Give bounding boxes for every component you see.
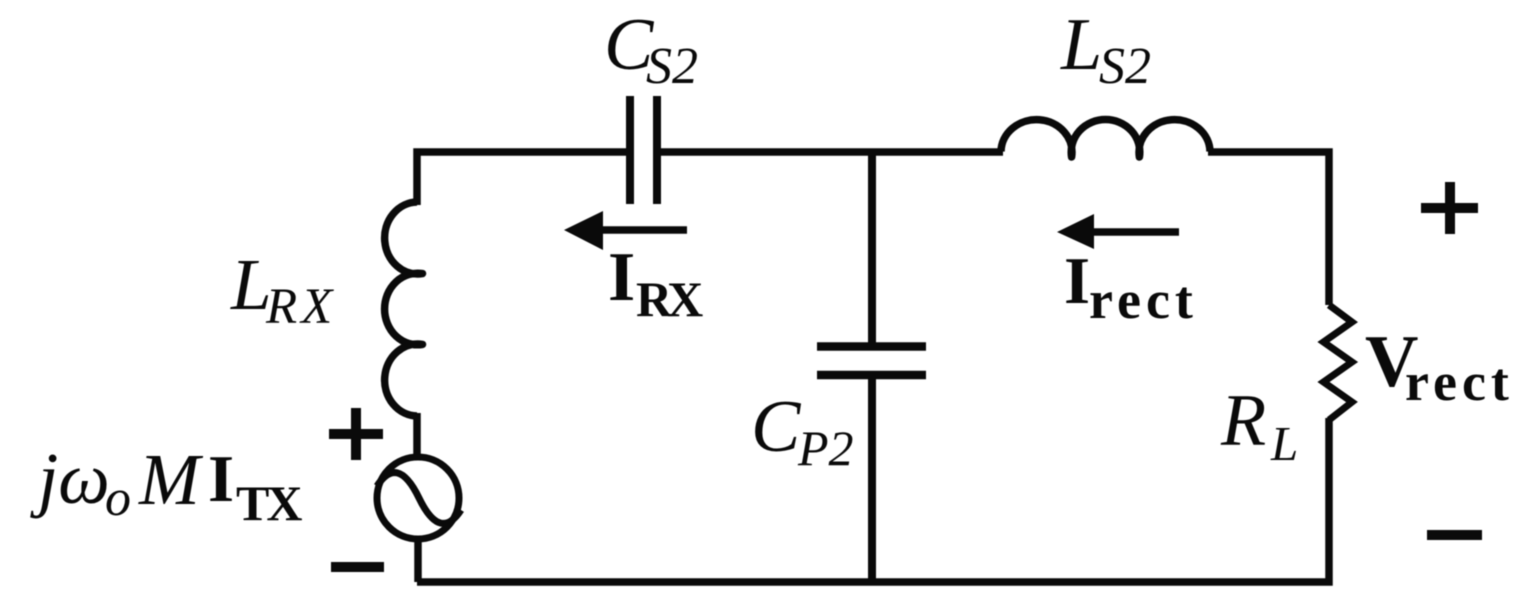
capacitor C_S2 plates [630,96,657,204]
svg-text:P2: P2 [797,420,854,476]
svg-text:RX: RX [636,271,703,327]
svg-text:TX: TX [236,475,302,531]
minus sign near source [331,562,384,572]
plus sign near source [329,408,383,460]
capacitor C_P2 plates [817,347,926,376]
arrow I_RX pointing left [598,226,687,234]
inductor L_RX (vertical coil, 3 bumps bulging left, cusps right) [385,202,423,416]
plus sign right [1421,182,1478,234]
svg-text:M: M [138,439,204,520]
svg-text:L: L [1060,4,1102,86]
minus sign right [1427,530,1482,540]
svg-text:I: I [208,442,234,516]
resistor R_L zigzag [1324,305,1353,420]
arrow I_rect pointing left [1090,228,1179,236]
svg-text:jω: jω [30,438,110,519]
svg-text:RX: RX [265,279,336,335]
svg-text:S2: S2 [646,38,698,95]
svg-text:L: L [1270,416,1298,471]
AC source circle [377,457,459,539]
wire source bottom to bottom wire [414,536,422,582]
wire resistor bottom, bottom-right corner, bottom wire [417,418,1329,582]
svg-text:I: I [1064,244,1090,318]
svg-text:rect: rect [1089,270,1198,330]
svg-text:C: C [751,386,802,468]
wire top-left corner segment [417,152,627,205]
middle branch wire from top node down to C_P2 [868,152,876,344]
svg-text:R: R [1220,380,1266,462]
wire from C_S2 to L_S2 [660,148,1003,156]
svg-text:rect: rect [1405,352,1514,412]
svg-text:o: o [105,470,131,527]
sine wave inside source [377,473,461,524]
svg-text:I: I [608,239,635,316]
svg-text:S2: S2 [1099,38,1151,95]
wire from L_S2 to top-right corner down to resistor [1208,152,1329,305]
wire coil bottom to source top [413,413,421,458]
wire from C_P2 down to bottom wire [868,378,876,582]
inductor L_S2 (horizontal coil, 3 bumps, cusps below line) [1001,120,1210,157]
